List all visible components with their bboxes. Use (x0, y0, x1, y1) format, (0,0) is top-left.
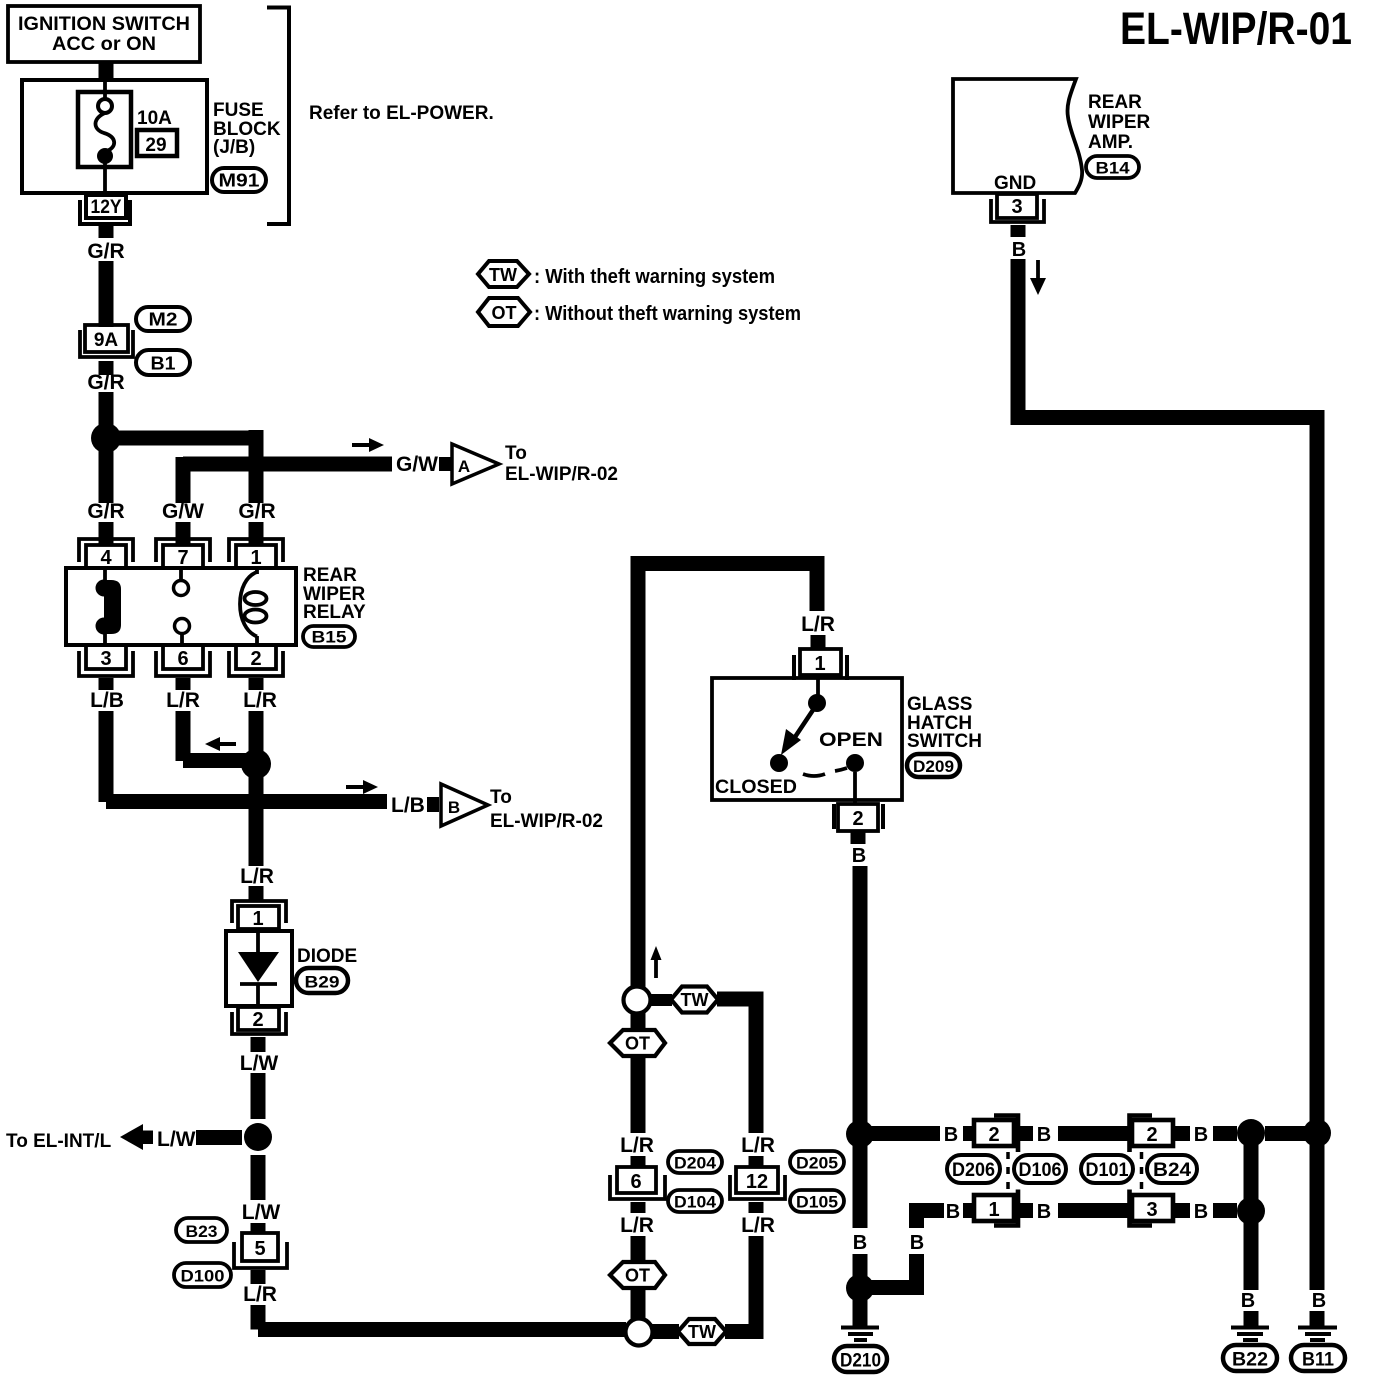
svg-text:4: 4 (100, 547, 112, 569)
svg-text:6: 6 (630, 1171, 641, 1193)
svg-text:TW: TW (489, 265, 517, 285)
svg-text:B: B (852, 845, 866, 867)
svg-text:12: 12 (746, 1171, 768, 1193)
svg-text:GND: GND (994, 173, 1036, 194)
svg-text:D101: D101 (1086, 1160, 1129, 1181)
svg-text:To: To (505, 443, 527, 464)
svg-text:To EL-INT/L: To EL-INT/L (6, 1131, 112, 1152)
svg-text:L/W: L/W (240, 1052, 279, 1075)
svg-text:2: 2 (852, 808, 863, 830)
svg-text:TW: TW (688, 1322, 716, 1342)
svg-text:29: 29 (145, 135, 166, 156)
svg-text:L/B: L/B (391, 794, 425, 817)
svg-text:D104: D104 (674, 1193, 717, 1212)
svg-text:G/R: G/R (87, 500, 124, 523)
svg-text:FUSE: FUSE (213, 100, 264, 121)
svg-text:B: B (944, 1124, 958, 1146)
svg-text:GLASS: GLASS (907, 694, 972, 715)
svg-text:EL-WIP/R-02: EL-WIP/R-02 (505, 464, 618, 485)
svg-text:(J/B): (J/B) (213, 137, 255, 158)
svg-text:2: 2 (988, 1124, 999, 1146)
svg-text:5: 5 (254, 1238, 265, 1260)
svg-text:B: B (1037, 1201, 1051, 1223)
svg-text:CLOSED: CLOSED (715, 777, 797, 798)
svg-text:To: To (490, 787, 512, 808)
svg-text:REAR: REAR (303, 565, 357, 586)
svg-text:B: B (946, 1201, 960, 1223)
svg-text:D209: D209 (913, 757, 954, 776)
svg-text:TW: TW (681, 990, 709, 1010)
svg-text:G/R: G/R (87, 240, 124, 263)
svg-text:L/R: L/R (166, 689, 200, 712)
svg-text:D204: D204 (674, 1154, 717, 1173)
svg-text:ACC or ON: ACC or ON (52, 34, 156, 55)
svg-text:: Without theft warning system: : Without theft warning system (534, 303, 801, 325)
svg-text:B14: B14 (1096, 159, 1131, 178)
svg-text:3: 3 (100, 648, 111, 670)
svg-text:WIPER: WIPER (1088, 112, 1151, 133)
svg-text:D106: D106 (1019, 1160, 1062, 1181)
svg-text:B: B (1241, 1290, 1255, 1312)
svg-text:REAR: REAR (1088, 92, 1142, 113)
svg-text:B11: B11 (1302, 1350, 1334, 1371)
svg-text:DIODE: DIODE (297, 946, 357, 967)
svg-text:6: 6 (177, 648, 188, 670)
svg-text:L/R: L/R (243, 689, 277, 712)
svg-text:OT: OT (492, 303, 517, 323)
svg-text:L/B: L/B (90, 689, 124, 712)
svg-text:3: 3 (1146, 1199, 1157, 1221)
svg-text:1: 1 (988, 1199, 999, 1221)
svg-text:OT: OT (625, 1034, 650, 1054)
svg-text:B: B (1194, 1124, 1208, 1146)
svg-text:1: 1 (252, 908, 263, 930)
svg-text:G/W: G/W (396, 453, 438, 476)
svg-text:Refer to EL-POWER.: Refer to EL-POWER. (309, 103, 494, 124)
svg-text:B24: B24 (1153, 1160, 1191, 1181)
svg-text:D105: D105 (796, 1193, 838, 1212)
svg-text:D210: D210 (840, 1351, 881, 1372)
svg-text:L/R: L/R (801, 613, 835, 636)
svg-text:12Y: 12Y (91, 197, 122, 218)
svg-text:AMP.: AMP. (1088, 132, 1133, 153)
svg-text:: With theft warning system: : With theft warning system (534, 266, 775, 288)
svg-text:D205: D205 (796, 1154, 838, 1173)
svg-text:B: B (853, 1232, 867, 1254)
svg-text:A: A (458, 457, 470, 476)
svg-text:B1: B1 (151, 354, 176, 374)
svg-text:OPEN: OPEN (819, 730, 883, 751)
svg-text:G/R: G/R (238, 500, 275, 523)
svg-text:G/R: G/R (87, 371, 124, 394)
svg-text:EL-WIP/R-02: EL-WIP/R-02 (490, 811, 603, 832)
svg-text:OT: OT (625, 1266, 650, 1286)
svg-text:L/R: L/R (741, 1214, 775, 1237)
svg-text:7: 7 (177, 547, 188, 569)
svg-text:3: 3 (1011, 196, 1022, 218)
svg-text:B: B (1312, 1290, 1326, 1312)
svg-text:B22: B22 (1232, 1350, 1268, 1371)
svg-text:L/W: L/W (157, 1128, 196, 1151)
svg-text:2: 2 (1146, 1124, 1157, 1146)
svg-text:L/W: L/W (242, 1201, 281, 1224)
svg-text:L/R: L/R (620, 1134, 654, 1157)
svg-text:B23: B23 (186, 1222, 218, 1241)
svg-text:1: 1 (814, 653, 825, 675)
svg-text:B15: B15 (312, 628, 347, 647)
svg-text:D100: D100 (181, 1267, 225, 1286)
svg-text:B: B (448, 798, 460, 817)
svg-text:L/R: L/R (243, 1283, 277, 1306)
svg-text:EL-WIP/R-01: EL-WIP/R-01 (1120, 3, 1352, 54)
svg-text:SWITCH: SWITCH (907, 731, 982, 752)
svg-text:B: B (1194, 1201, 1208, 1223)
svg-text:2: 2 (250, 648, 261, 670)
svg-text:2: 2 (252, 1009, 263, 1031)
svg-text:G/W: G/W (162, 500, 204, 523)
svg-text:B: B (1012, 239, 1026, 261)
svg-text:B: B (910, 1232, 924, 1254)
svg-text:1: 1 (250, 547, 261, 569)
svg-text:B29: B29 (305, 973, 340, 992)
svg-text:D206: D206 (952, 1160, 995, 1181)
svg-text:IGNITION SWITCH: IGNITION SWITCH (18, 14, 190, 35)
svg-text:RELAY: RELAY (303, 602, 366, 623)
svg-text:9A: 9A (94, 330, 119, 351)
svg-text:L/R: L/R (620, 1214, 654, 1237)
svg-text:M2: M2 (149, 310, 178, 330)
svg-text:10A: 10A (137, 108, 172, 129)
svg-text:L/R: L/R (741, 1134, 775, 1157)
svg-text:M91: M91 (219, 171, 260, 191)
svg-text:L/R: L/R (240, 865, 274, 888)
svg-text:B: B (1037, 1124, 1051, 1146)
